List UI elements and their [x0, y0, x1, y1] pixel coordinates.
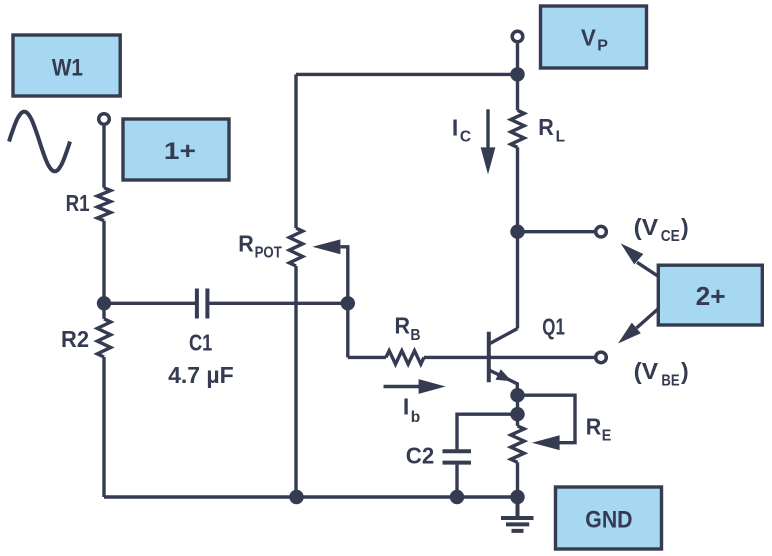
potentiometer RPOT: [289, 228, 302, 266]
wire C2 bottom: [455, 465, 458, 497]
wire Rpot bottom rail: [294, 266, 297, 497]
wire collector node to VCE terminal: [518, 230, 595, 233]
node bottom C2: [450, 490, 464, 504]
wire emitter diagonal: [489, 370, 517, 395]
svg-text:L: L: [556, 128, 565, 145]
arrowhead Ib: [419, 379, 446, 394]
label IC: [452, 114, 471, 145]
svg-text:E: E: [602, 428, 612, 445]
svg-text:GND: GND: [585, 506, 632, 533]
wire input terminal to R1: [102, 126, 105, 188]
svg-text:C: C: [460, 129, 471, 146]
box VP: [541, 6, 647, 68]
resistor RE: [511, 426, 524, 462]
wire R2 to bottom rail: [102, 357, 105, 497]
svg-text:1+: 1+: [164, 138, 196, 165]
wire Rpot wiper drop: [340, 247, 347, 358]
svg-text:4.7 µF: 4.7 µF: [168, 362, 234, 388]
svg-text:): ): [681, 358, 689, 384]
wire R1 to R2: [102, 221, 105, 319]
wire bottom rail: [104, 495, 518, 498]
arrowhead 2+ upper probe: [621, 243, 644, 264]
arrowhead Rpot wiper: [312, 239, 340, 254]
node emitter upper: [510, 388, 524, 402]
wire base to VBE terminal: [424, 356, 594, 359]
wire 2+ lower probe: [637, 309, 659, 329]
svg-text:R1: R1: [66, 190, 90, 216]
resistor RB: [386, 351, 424, 364]
svg-text:I: I: [452, 114, 458, 140]
svg-text:BE: BE: [661, 372, 679, 389]
label RE: [586, 414, 612, 445]
resistor R1: [97, 188, 110, 221]
box GND: [556, 487, 662, 549]
label RPOT: [238, 231, 282, 262]
wire C2 branch: [457, 414, 518, 449]
svg-text:W1: W1: [52, 54, 83, 81]
svg-text:): ): [681, 214, 689, 240]
wire IC arrow shaft: [486, 109, 489, 150]
box 1+: [123, 119, 229, 180]
svg-text:2+: 2+: [696, 283, 726, 311]
arrowhead emitter: [496, 369, 513, 381]
svg-text:R: R: [395, 313, 411, 339]
label VBE: [634, 358, 689, 389]
svg-text:C2: C2: [406, 443, 434, 469]
svg-text:(V: (V: [634, 214, 659, 240]
box 2+: [658, 265, 762, 325]
svg-text:C1: C1: [189, 330, 212, 356]
box W1: [13, 35, 120, 96]
wire Rpot top rail: [294, 74, 297, 228]
svg-text:I: I: [403, 394, 409, 420]
wire base left: [348, 356, 386, 359]
capacitor C2 plates: [443, 451, 472, 462]
wire 2+ upper probe: [637, 262, 659, 276]
svg-text:CE: CE: [661, 228, 680, 245]
node wiper C1: [341, 296, 355, 310]
label VCE: [634, 214, 689, 245]
terminal input: [99, 114, 110, 125]
capacitor C1 plates: [197, 289, 208, 319]
svg-text:POT: POT: [255, 245, 283, 262]
svg-text:R2: R2: [61, 326, 89, 352]
node emitter lower: [510, 407, 524, 421]
wire Vp terminal to top node: [516, 44, 519, 111]
node top rail / collector rail junction: [510, 67, 524, 81]
node collector output: [510, 225, 524, 239]
wire top rail: [296, 73, 518, 76]
sine wave source symbol: [9, 112, 70, 172]
wire RL to collector: [516, 147, 519, 328]
svg-text:B: B: [410, 327, 420, 344]
wire Ib arrow shaft: [384, 385, 421, 388]
label RL: [538, 114, 565, 145]
wire emitter node to RE: [516, 395, 519, 426]
arrowhead RE wiper: [532, 435, 560, 450]
arrowhead IC: [481, 147, 496, 174]
terminal VBE: [596, 352, 607, 363]
transistor Q1 base bar: [487, 332, 491, 383]
svg-text:R: R: [538, 114, 554, 140]
label RB: [395, 313, 421, 344]
node bottom Rpot: [289, 490, 303, 504]
wire C1 right: [209, 302, 348, 305]
wire collector diagonal: [489, 329, 518, 345]
wire RE to bottom node: [516, 462, 519, 497]
node R1 R2 C1: [97, 296, 111, 310]
arrowhead 2+ lower probe: [618, 323, 641, 344]
svg-text:R: R: [238, 231, 254, 257]
svg-text:b: b: [411, 409, 420, 426]
svg-text:Q1: Q1: [542, 313, 565, 339]
resistor RL: [511, 110, 524, 147]
svg-text:V: V: [581, 25, 596, 51]
svg-text:P: P: [597, 38, 608, 55]
terminal Vp: [512, 31, 523, 42]
wire C1 left: [104, 302, 195, 305]
wire emitter node right: [518, 395, 576, 443]
resistor R2: [97, 319, 110, 357]
svg-text:R: R: [586, 414, 602, 440]
ground symbol: [501, 497, 534, 531]
node bottom RE ground: [510, 490, 524, 504]
terminal VCE: [596, 226, 607, 237]
svg-text:(V: (V: [634, 358, 659, 384]
label Ib: [403, 394, 420, 426]
